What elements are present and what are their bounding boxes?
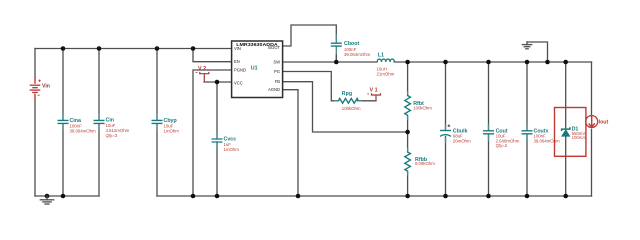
wire FB net [282,82,408,132]
wire ground rail B [157,195,592,197]
node GND / Cina [61,194,66,199]
capacitor Cbyp [152,118,180,134]
load box (red) [555,108,586,157]
svg-text:39.064mOhm: 39.064mOhm [70,129,96,134]
node VOUT / ground stub [545,60,550,65]
svg-text:U1: U1 [251,65,258,71]
capacitor Cbulk (polarized) [440,125,471,144]
svg-text:21mOhm: 21mOhm [377,72,395,77]
current source Iout [586,116,609,128]
node GND / Cout [486,194,491,199]
svg-text:20mOhm: 20mOhm [453,139,471,144]
wire VIN top rail [35,48,232,50]
wire Cboot lead top [335,34,337,43]
op-amp U1 LMR33630ADDA [232,41,283,98]
svg-text:FB: FB [275,79,281,84]
wire PGND branch [193,70,232,196]
svg-text:BOOT: BOOT [268,45,280,50]
svg-text:Vin: Vin [42,84,50,90]
svg-text:100kOhm: 100kOhm [342,106,361,111]
node VIN rail / Cina [61,46,66,51]
wire battery branch bottom [34,101,36,196]
svg-text:Qty=3: Qty=3 [106,133,118,138]
svg-text:V 2: V 2 [198,66,206,72]
wire Cboot lead bottom / to SW [335,46,337,61]
node GND / Coutx [525,194,530,199]
capacitor Cout [483,128,520,148]
wire SW rail [282,61,377,63]
svg-text:PG: PG [274,69,280,74]
node VIN rail / Cbyp [155,46,160,51]
node VIN rail / Cin [97,46,102,51]
node GND / D1 [563,194,568,199]
node VOUT / Cbulk [443,60,448,65]
wire Rfbb branch [407,132,409,196]
capacitor Cboot [331,41,371,57]
svg-text:AGND: AGND [268,87,280,92]
wire BOOT loop [282,25,336,46]
node VOUT / Coutx [525,60,530,65]
svg-text:Iout: Iout [599,120,609,126]
wire battery branch top [34,49,36,78]
wire Rfbt branch [407,62,409,132]
wire Cbyp branch [156,49,158,197]
resistor Rfbb [405,152,435,171]
ground earth top-right [522,42,531,49]
capacitor Cin [94,117,130,138]
svg-text:100mA: 100mA [572,135,586,140]
svg-text:9.09kOhm: 9.09kOhm [415,161,435,166]
node GND / Cvcc [215,194,220,199]
svg-text:V 1: V 1 [370,88,378,94]
wire VCC branch [204,82,232,196]
wire Cina branch [62,49,64,197]
wire PG net [282,72,376,101]
diode D1 (Schottky) [562,127,586,140]
wire VOUT rail [394,61,591,63]
probe V2 [196,66,209,82]
svg-text:SW: SW [273,60,280,65]
svg-text:100kOhm: 100kOhm [413,105,432,110]
svg-text:Rpg: Rpg [342,91,352,97]
svg-text:Cboot: Cboot [344,41,360,47]
svg-text:VIN: VIN [234,46,241,51]
ground earth bottom-left [40,196,53,204]
voltage source Vin [30,77,50,101]
svg-text:39.064mOhm: 39.064mOhm [344,52,370,57]
svg-text:PGND: PGND [234,68,246,73]
wire Cin branch [98,49,100,197]
node GND / Rfbb [405,194,410,199]
node VOUT / D1 [563,60,568,65]
svg-text:1mOhm: 1mOhm [164,129,180,134]
node FB divider [405,130,410,135]
capacitor Cvcc [212,137,240,153]
resistor Rpg [339,91,361,111]
svg-text:L1: L1 [378,52,384,58]
svg-text:EN: EN [234,59,240,64]
capacitor Cina [58,118,96,134]
wire D1 branch [565,62,567,196]
wire ground rail A [35,195,99,197]
wire output ground stub [527,42,548,62]
wire AGND branch [282,90,298,196]
wire cap/resistor teal lead stubs [63,91,527,176]
wire Cout branch [488,62,490,196]
svg-text:Qty=2: Qty=2 [496,143,508,148]
svg-text:39.064mOhm: 39.064mOhm [534,138,560,143]
node VOUT / Cout [486,60,491,65]
wire Cbulk branch [445,62,447,196]
wire EN branch [193,49,232,62]
svg-text:1mOhm: 1mOhm [224,147,240,152]
node GND / AGND [296,194,301,199]
resistor Rfbt [405,96,432,116]
capacitor Coutx [522,128,560,143]
svg-text:VCC: VCC [234,80,243,85]
node SW / Cboot [334,60,339,65]
node VCC [215,80,220,85]
node VOUT / Rfbt [405,60,410,65]
inductor L1 [377,52,395,76]
node GND / PGND [191,194,196,199]
node GND / earth [45,194,50,199]
wire Coutx branch [526,62,528,196]
wire Iout branch [591,62,593,196]
probe V1 [367,88,380,101]
node GND / Cbulk [443,194,448,199]
node VIN rail / EN [191,46,196,51]
